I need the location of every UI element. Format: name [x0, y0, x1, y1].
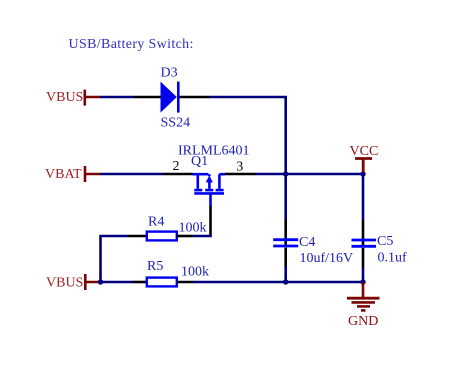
capacitor C4 bottom pin [284, 248, 287, 267]
wire VBUS to D3 [100, 96, 134, 99]
svg-text:R4: R4 [148, 215, 164, 230]
capacitor C5 plates [352, 240, 377, 246]
svg-text:USB/Battery Switch:: USB/Battery Switch: [69, 37, 194, 52]
svg-text:VBAT: VBAT [45, 167, 82, 182]
svg-text:10uf/16V: 10uf/16V [300, 251, 354, 266]
diode D3 pin 1 (anode pin) [134, 96, 161, 99]
svg-text:VBUS: VBUS [46, 90, 83, 105]
transistor Q1 pin 2 (source) [163, 173, 193, 176]
transistor Q1 body (P-MOSFET symbol) [193, 174, 226, 206]
wire C4 bottom to ground rail [284, 267, 287, 283]
svg-text:2: 2 [173, 159, 180, 174]
svg-text:100k: 100k [179, 221, 207, 236]
wire Q1 drain to VCC column [256, 173, 364, 176]
diode D3 pin 2 (cathode pin) [180, 96, 210, 99]
svg-text:VBUS: VBUS [46, 276, 83, 291]
capacitor C4 plates [273, 240, 298, 246]
resistor R5 pin 2 [177, 281, 193, 284]
svg-text:3: 3 [236, 160, 243, 175]
wire R4 to Q1 gate [193, 235, 212, 238]
capacitor C4 top pin [284, 220, 287, 248]
diode D3 body [161, 82, 179, 113]
junction dot at C4 bottom [283, 279, 288, 284]
svg-text:R5: R5 [147, 259, 163, 274]
svg-text:0.1uf: 0.1uf [378, 251, 408, 266]
svg-text:IRLML6401: IRLML6401 [178, 144, 250, 159]
svg-text:100k: 100k [181, 265, 209, 280]
junction dot at C5/GND [360, 279, 365, 284]
svg-text:SS24: SS24 [161, 116, 191, 131]
svg-text:VCC: VCC [350, 144, 379, 159]
wire R5 to ground rail [193, 281, 363, 284]
svg-text:C5: C5 [377, 234, 393, 249]
transistor Q1 pin 1 (gate) [209, 206, 212, 237]
capacitor C5 bottom pin [362, 248, 365, 267]
svg-text:D3: D3 [161, 66, 178, 81]
svg-text:GND: GND [348, 314, 378, 329]
wire VCC column down to C5 [362, 174, 365, 220]
junction dot at bottom VBUS port [98, 279, 103, 284]
ground GND symbol [347, 282, 380, 310]
resistor R4 left wire from corner [101, 236, 129, 282]
wire C5 bottom to ground junction [362, 267, 365, 282]
resistor R5 pin 1 [133, 281, 147, 284]
resistor R4 pin 2 [177, 235, 193, 238]
port VBUS (bottom) [46, 274, 101, 291]
svg-text:Q1: Q1 [191, 154, 208, 169]
resistor R5 body [147, 278, 177, 287]
port VBAT [45, 166, 100, 182]
wire VBUS to R5 [101, 281, 133, 284]
resistor R4 pin 1 [128, 235, 147, 238]
junction dot at VCC column and drain wire [360, 171, 365, 176]
wire VBAT to Q1 pin 2 [100, 173, 163, 176]
resistor R4 body [147, 232, 177, 241]
junction dot at D3/C4 column and drain wire [283, 171, 288, 176]
port VBUS (top) [46, 90, 100, 106]
power VCC symbol [350, 144, 379, 173]
svg-text:C4: C4 [299, 235, 315, 250]
wire D3 cathode to VCC net (corner down to C4) [210, 97, 286, 220]
capacitor C5 top pin [362, 220, 365, 247]
transistor Q1 pin 3 (drain) [225, 173, 256, 176]
